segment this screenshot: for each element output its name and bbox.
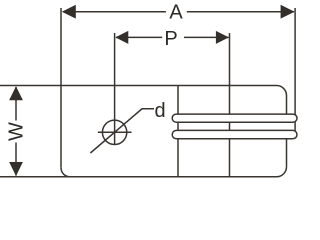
svg-text:A: A [169,1,183,23]
arrow A left [62,5,76,19]
wire barrel left vertical [177,86,179,177]
wire A dimension line [63,11,294,13]
wire d leader diagonal [90,109,154,153]
wire top edge / W extension [0,85,277,87]
node hole centerline vertical / P left extension [114,33,116,145]
arrow P right [216,31,229,44]
wire P dimension line [116,36,229,38]
arrow W up [9,86,23,100]
rib 1 [172,114,297,122]
wire W dimension line [15,87,17,176]
wire P right extension / sleeve vertical [229,33,231,177]
wire left edge / A left extension [60,8,62,168]
svg-text:P: P [164,28,177,50]
arrow P left [115,31,128,44]
node hole centerline horizontal [98,131,132,133]
wire bottom edge / W extension [0,176,277,178]
arrow A right [281,5,295,19]
wire right edge upper segment [286,96,288,115]
hole d [102,120,126,144]
wire A right extension [294,8,296,134]
svg-text:W: W [5,122,27,141]
arrow W down [9,162,23,176]
wire right edge lower segment [286,139,288,167]
wire top-right corner arc [277,86,287,96]
svg-text:d: d [155,100,166,122]
rib 2 [172,130,297,138]
wire bottom-left corner arc [61,168,70,177]
wire bottom-right corner arc [277,167,287,177]
